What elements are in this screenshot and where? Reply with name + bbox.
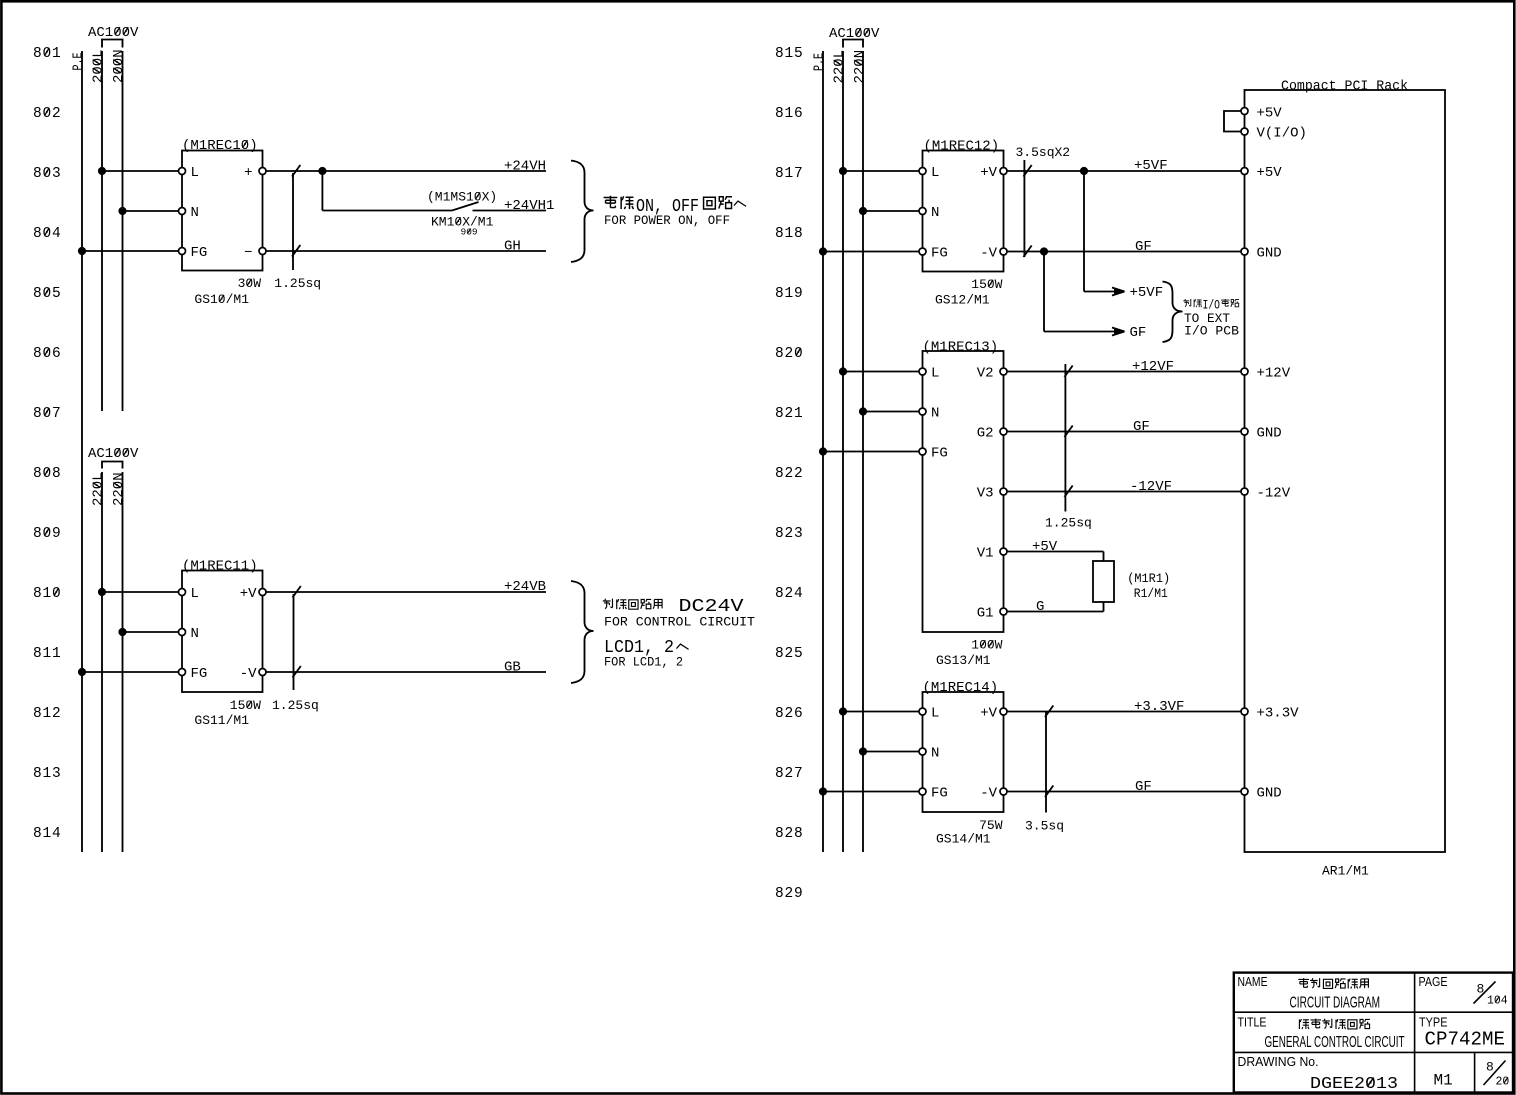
svg-text:200N: 200N	[111, 49, 127, 83]
svg-text:8: 8	[1486, 1060, 1494, 1075]
svg-text:802: 802	[33, 106, 62, 122]
wire 220L to REC13.L	[843, 371, 919, 373]
svg-text:PAGE: PAGE	[1419, 974, 1448, 989]
pin +5V of rack	[1241, 168, 1248, 175]
svg-text:GENERAL CONTROL CIRCUIT: GENERAL CONTROL CIRCUIT	[1265, 1034, 1405, 1051]
svg-text:AC100V: AC100V	[88, 446, 139, 462]
svg-text:N: N	[931, 406, 939, 422]
pin FG of REC11	[179, 669, 186, 676]
brace power on/off group	[571, 161, 594, 263]
svg-text:P.E: P.E	[71, 53, 87, 71]
svg-text:810: 810	[33, 586, 62, 602]
wire 220L bus (left)	[101, 472, 103, 852]
svg-text:807: 807	[33, 406, 62, 422]
svg-text:V3: V3	[977, 486, 994, 502]
svg-text:G2: G2	[977, 426, 994, 442]
pin N of REC10	[179, 208, 186, 215]
svg-text:827: 827	[775, 766, 804, 782]
svg-text:GS10/M1: GS10/M1	[194, 292, 249, 307]
node junction +5VF branch	[1080, 167, 1088, 175]
svg-text:822: 822	[775, 466, 804, 482]
svg-text:809: 809	[33, 526, 62, 542]
wire 200N bus	[122, 51, 124, 411]
value sheet 8/20	[1484, 1060, 1510, 1089]
pin + of REC10	[259, 168, 266, 175]
resistor R1 (M1R1)	[1093, 561, 1114, 602]
svg-text:+5V: +5V	[1257, 165, 1283, 181]
pin +V of REC11	[259, 589, 266, 596]
svg-text:150W: 150W	[971, 277, 1002, 292]
svg-text:806: 806	[33, 346, 62, 362]
wire REC12.+V to rack +5V	[1007, 170, 1242, 172]
wire REC10.+ to +24VH	[266, 170, 546, 172]
svg-text:+24VB: +24VB	[504, 579, 546, 595]
svg-text:30W: 30W	[238, 276, 262, 291]
svg-text:GS14/M1: GS14/M1	[936, 832, 991, 847]
pin L of REC10	[179, 168, 186, 175]
wire 220N to REC11.N	[123, 631, 179, 633]
svg-text:821: 821	[775, 406, 804, 422]
svg-text:808: 808	[33, 466, 62, 482]
pin V1 of REC13	[1000, 548, 1007, 555]
wire P.E bus (left)	[81, 51, 83, 852]
wire +5VF branch to ext I/O	[1083, 171, 1085, 292]
svg-text:811: 811	[33, 646, 62, 662]
svg-text:+5VF: +5VF	[1134, 158, 1168, 174]
wire 200L bus	[101, 51, 103, 411]
svg-text:L: L	[191, 586, 199, 602]
svg-text:815: 815	[775, 46, 804, 62]
pin -V of REC12	[1000, 248, 1007, 255]
svg-text:+24VH1: +24VH1	[504, 198, 554, 214]
switch M1MS10X blade	[452, 202, 479, 211]
svg-text:FG: FG	[191, 666, 208, 682]
svg-text:L: L	[931, 165, 939, 181]
pin -V of REC11	[259, 669, 266, 676]
svg-text:−: −	[244, 245, 252, 261]
value page 8/104	[1474, 982, 1508, 1008]
svg-text:(M1REC10): (M1REC10)	[182, 138, 258, 154]
svg-text:GF: GF	[1135, 779, 1152, 795]
wire jumper +5V to V(I/O)	[1224, 111, 1241, 132]
svg-text:1.25sq: 1.25sq	[1045, 516, 1092, 531]
svg-text:GND: GND	[1257, 426, 1282, 442]
wire REC12.-V to rack GND	[1007, 251, 1242, 253]
wire REC13.V3 to rack -12V	[1007, 491, 1242, 493]
svg-text:+V: +V	[980, 165, 997, 181]
wire REC11.-V to GB	[266, 671, 546, 673]
wire 220N to REC12.N	[863, 210, 919, 212]
wire AC100V bracket (right)	[843, 40, 863, 48]
wire switch to +24VH1	[473, 210, 547, 212]
svg-text:220L: 220L	[832, 50, 848, 84]
wire REC13.G2 to rack GND	[1007, 431, 1242, 433]
wire 220L to REC12.L	[843, 170, 919, 172]
note LCD1,2へ	[604, 638, 689, 658]
wire P.E bus (right)	[822, 51, 824, 852]
svg-text:G1: G1	[977, 606, 994, 622]
title block frame	[1234, 973, 1513, 1093]
cable marker 3.5sq (REC14)	[1045, 712, 1047, 813]
rectifier REC12 body GS12/M1	[923, 151, 1004, 272]
svg-text:820: 820	[775, 346, 804, 362]
pin FG of REC12	[919, 248, 926, 255]
svg-text:(M1MS10X): (M1MS10X)	[427, 190, 497, 205]
svg-text:220N: 220N	[111, 472, 127, 506]
note 制御回路用 DC24V	[603, 597, 744, 617]
svg-text:-V: -V	[980, 246, 997, 262]
svg-text:220N: 220N	[852, 50, 868, 84]
svg-text:3.5sq: 3.5sq	[1025, 819, 1064, 834]
svg-text:909: 909	[461, 227, 478, 238]
svg-text:L: L	[931, 706, 939, 722]
wire REC11.+V to +24VB	[266, 591, 546, 593]
cable marker 3.5sqX2	[1023, 160, 1025, 257]
wire 220L bus (right)	[842, 51, 844, 852]
svg-text:200L: 200L	[91, 49, 107, 83]
pin FG of REC13	[919, 448, 926, 455]
svg-text:FOR CONTROL CIRCUIT: FOR CONTROL CIRCUIT	[604, 616, 756, 630]
wire 220N bus (right)	[862, 51, 864, 852]
pin +V of REC12	[1000, 168, 1007, 175]
cable marker 1.25sq (REC10)	[292, 173, 294, 270]
svg-text:-12VF: -12VF	[1130, 479, 1172, 495]
wire GF branch to ext I/O	[1043, 252, 1045, 332]
svg-text:+5V: +5V	[1032, 539, 1058, 555]
svg-text:GS12/M1: GS12/M1	[935, 293, 990, 308]
title 総合制御回路	[1299, 1019, 1309, 1029]
svg-text:AR1/M1: AR1/M1	[1322, 864, 1369, 879]
wire P.E to REC11.FG	[82, 671, 179, 673]
svg-text:3.5sqX2: 3.5sqX2	[1016, 145, 1071, 160]
svg-text:(M1REC13): (M1REC13)	[923, 340, 999, 356]
svg-text:829: 829	[775, 886, 804, 902]
svg-text:826: 826	[775, 706, 804, 722]
svg-text:P.E: P.E	[812, 53, 828, 71]
svg-text:+V: +V	[980, 706, 997, 722]
svg-text:+V: +V	[240, 586, 257, 602]
svg-text:L: L	[191, 165, 199, 181]
wire 220L to REC11.L	[102, 591, 179, 593]
svg-text:FG: FG	[191, 245, 208, 261]
svg-text:828: 828	[775, 826, 804, 842]
svg-text:GF: GF	[1133, 419, 1150, 435]
svg-text:+24VH: +24VH	[504, 159, 546, 175]
svg-text:+12V: +12V	[1257, 366, 1291, 382]
svg-text:805: 805	[33, 286, 62, 302]
svg-text:GS11/M1: GS11/M1	[194, 713, 249, 728]
node junction GF branch	[1040, 247, 1048, 255]
svg-text:+5VF: +5VF	[1130, 285, 1164, 301]
wire P.E to REC13.FG	[823, 451, 919, 453]
svg-text:L: L	[931, 366, 939, 382]
svg-text:(M1R1): (M1R1)	[1127, 571, 1170, 586]
pin V(I/O) of rack	[1241, 128, 1248, 135]
pin V2 of REC13	[1000, 368, 1007, 375]
svg-text:FG: FG	[931, 446, 948, 462]
svg-text:N: N	[191, 205, 199, 221]
pin -12V of rack	[1241, 488, 1248, 495]
svg-text:+5V: +5V	[1257, 106, 1283, 122]
svg-text:220L: 220L	[91, 472, 107, 506]
svg-text:819: 819	[775, 286, 804, 302]
svg-text:FG: FG	[931, 246, 948, 262]
wire P.E to REC10.FG	[82, 250, 179, 252]
wire REC10.- to GH	[266, 250, 546, 252]
pin +12V of rack	[1241, 368, 1248, 375]
connector AR1/M1 Compact PCI Rack body	[1245, 90, 1446, 852]
svg-text:CP742ME: CP742ME	[1425, 1029, 1506, 1051]
wire 220N bus (left)	[122, 472, 124, 852]
rectifier REC10 body GS10/M1	[182, 151, 263, 271]
svg-text:GND: GND	[1257, 246, 1282, 262]
svg-text:V(I/O): V(I/O)	[1257, 126, 1307, 142]
svg-text:+12VF: +12VF	[1132, 359, 1174, 375]
pin FG of REC14	[919, 788, 926, 795]
svg-text:-V: -V	[980, 786, 997, 802]
note 拡張I/O基板	[1183, 299, 1239, 313]
pin GND of rack (1)	[1241, 248, 1248, 255]
svg-text:M1: M1	[1434, 1072, 1453, 1090]
svg-text:TYPE: TYPE	[1419, 1015, 1448, 1030]
pin - of REC10	[259, 248, 266, 255]
svg-text:+3.3V: +3.3V	[1257, 706, 1300, 722]
svg-text:GH: GH	[504, 239, 521, 255]
svg-text:150W: 150W	[230, 698, 261, 713]
pin +V of REC14	[1000, 708, 1007, 715]
svg-text:1.25sq: 1.25sq	[272, 698, 319, 713]
svg-text:+: +	[244, 165, 252, 181]
svg-text:Compact PCI Rack: Compact PCI Rack	[1281, 79, 1408, 95]
svg-text:104: 104	[1487, 995, 1508, 1008]
svg-text:N: N	[931, 205, 939, 221]
svg-text:803: 803	[33, 166, 62, 182]
svg-text:N: N	[191, 626, 199, 642]
svg-text:G: G	[1036, 599, 1044, 615]
pin N of REC12	[919, 208, 926, 215]
svg-text:NAME: NAME	[1238, 974, 1268, 989]
wire +24VH branch down	[321, 171, 323, 211]
svg-text:817: 817	[775, 166, 804, 182]
node junction +24VH branch	[318, 167, 326, 175]
pin V3 of REC13	[1000, 488, 1007, 495]
node row-labels 801-814	[33, 46, 62, 842]
svg-text:V2: V2	[977, 366, 994, 382]
svg-text:816: 816	[775, 106, 804, 122]
wire 220N to REC13.N	[863, 411, 919, 413]
rectifier REC11 body GS11/M1	[182, 571, 263, 693]
wire REC14.+V to rack +3.3V	[1007, 711, 1242, 713]
svg-text:I/O PCB: I/O PCB	[1184, 324, 1239, 339]
pin L of REC11	[179, 589, 186, 596]
svg-text:R1/M1: R1/M1	[1134, 586, 1168, 601]
svg-text:FOR LCD1, 2: FOR LCD1, 2	[604, 656, 683, 670]
svg-text:801: 801	[33, 46, 62, 62]
pin FG of REC10	[179, 248, 186, 255]
svg-text:100W: 100W	[971, 638, 1002, 653]
svg-text:DC24V: DC24V	[679, 597, 744, 617]
pin N of REC14	[919, 748, 926, 755]
svg-text:DGEE2013: DGEE2013	[1310, 1074, 1398, 1093]
brace control circuit group	[571, 581, 594, 683]
svg-text:813: 813	[33, 766, 62, 782]
svg-text:+3.3VF: +3.3VF	[1134, 699, 1184, 715]
svg-text:N: N	[931, 746, 939, 762]
wire REC14.-V to rack GND	[1007, 791, 1242, 793]
svg-text:FG: FG	[931, 786, 948, 802]
svg-text:GND: GND	[1257, 786, 1282, 802]
svg-text:818: 818	[775, 226, 804, 242]
wire R1 to REC13.G1	[1103, 602, 1105, 612]
svg-text:GB: GB	[504, 660, 521, 676]
wire AC100V bracket 2	[102, 462, 123, 469]
brace ext I/O group	[1163, 282, 1183, 343]
pin N of REC11	[179, 629, 186, 636]
svg-text:-12V: -12V	[1257, 486, 1291, 502]
pin L of REC13	[919, 368, 926, 375]
wire 220L to REC14.L	[843, 711, 919, 713]
svg-text:GF: GF	[1135, 239, 1152, 255]
pin L of REC14	[919, 708, 926, 715]
wire REC13.V1 to R1	[1007, 551, 1104, 553]
pin GND of rack (3)	[1241, 788, 1248, 795]
rectifier REC14 body GS14/M1	[923, 692, 1004, 812]
rectifier REC13 body GS13/M1	[923, 351, 1004, 632]
pin +5V (jumpered) of rack	[1241, 108, 1248, 115]
pin +3.3V of rack	[1241, 708, 1248, 715]
cable marker 1.25sq (REC13)	[1064, 364, 1066, 512]
pin -V of REC14	[1000, 788, 1007, 795]
svg-text:(M1REC12): (M1REC12)	[924, 139, 1000, 155]
svg-text:FOR POWER ON, OFF: FOR POWER ON, OFF	[604, 214, 730, 228]
title 電気回路線図	[1298, 978, 1309, 987]
wire P.E to REC14.FG	[823, 791, 919, 793]
node row-labels 815-829	[775, 46, 804, 902]
pin L of REC12	[919, 168, 926, 175]
wire branch to switch KM10X	[322, 210, 452, 212]
svg-text:CIRCUIT DIAGRAM: CIRCUIT DIAGRAM	[1290, 995, 1381, 1012]
svg-text:823: 823	[775, 526, 804, 542]
svg-text:GS13/M1: GS13/M1	[936, 653, 991, 668]
wire P.E to REC12.FG	[823, 251, 919, 253]
wire 220N to REC14.N	[863, 751, 919, 753]
svg-text:DRAWING No.: DRAWING No.	[1238, 1054, 1319, 1069]
svg-text:GF: GF	[1130, 325, 1147, 341]
svg-text:804: 804	[33, 226, 62, 242]
pin GND of rack (2)	[1241, 428, 1248, 435]
svg-text:V1: V1	[977, 546, 994, 562]
wire 200L to REC10.L	[102, 170, 179, 172]
pin G2 of REC13	[1000, 428, 1007, 435]
svg-text:-V: -V	[240, 666, 257, 682]
pin N of REC13	[919, 408, 926, 415]
svg-text:824: 824	[775, 586, 804, 602]
wire 200N to REC10.N	[123, 210, 179, 212]
svg-text:814: 814	[33, 826, 62, 842]
svg-text:(M1REC14): (M1REC14)	[923, 680, 999, 696]
note 電源ON,OFF回路へ	[604, 196, 747, 217]
wire REC13.V2 to rack +12V	[1007, 371, 1242, 373]
svg-text:812: 812	[33, 706, 62, 722]
pin G1 of REC13	[1000, 608, 1007, 615]
wire AC100V bracket	[102, 40, 123, 48]
svg-text:(M1REC11): (M1REC11)	[182, 559, 258, 575]
svg-text:TITLE: TITLE	[1238, 1015, 1267, 1030]
cable marker 1.25sq (REC11)	[293, 594, 295, 690]
svg-text:825: 825	[775, 646, 804, 662]
svg-text:1.25sq: 1.25sq	[274, 276, 321, 291]
